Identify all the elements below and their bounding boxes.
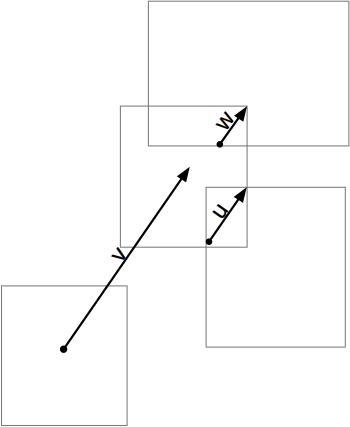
label w bbox=[207, 106, 239, 136]
vector v arrowhead bbox=[177, 167, 190, 183]
svg-text:w: w bbox=[208, 106, 240, 136]
vector u tail dot bbox=[206, 238, 213, 245]
vector v tail dot bbox=[60, 346, 67, 353]
square right bbox=[206, 187, 345, 347]
vector w line bbox=[220, 113, 243, 145]
vector u arrowhead bbox=[234, 187, 247, 203]
square middle bbox=[120, 106, 247, 247]
label v bbox=[104, 242, 132, 267]
label u bbox=[204, 198, 233, 223]
vector u line bbox=[209, 194, 242, 242]
vector w arrowhead bbox=[234, 106, 247, 122]
square top bbox=[148, 1, 349, 146]
vector v line bbox=[64, 174, 185, 349]
vector w tail dot bbox=[217, 141, 224, 148]
square bottom-left bbox=[2, 286, 128, 426]
